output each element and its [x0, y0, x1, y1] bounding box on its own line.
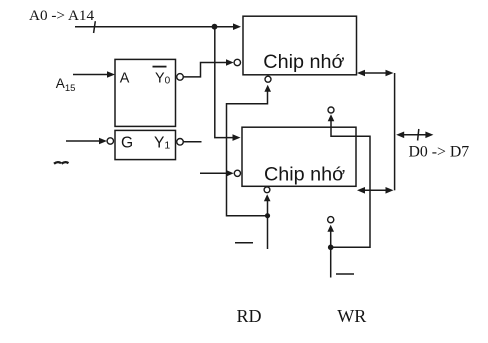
wire A15 input	[73, 74, 107, 76]
bubble chip U3 select input	[234, 170, 240, 176]
bubble decoder G input	[107, 138, 113, 144]
wire RD branch to chip U2	[227, 91, 268, 216]
wire RD trunk	[267, 200, 269, 249]
data bus chip U3 double arrow	[361, 189, 390, 191]
bubble decoder Y0 output	[177, 74, 184, 81]
wire G input	[66, 140, 99, 142]
svg-text:Chip nhớ: Chip nhớ	[264, 163, 345, 185]
arrowhead G input	[99, 138, 107, 145]
bus width tick on address bus	[94, 21, 96, 33]
arrowhead address branch into chip U3	[233, 134, 241, 141]
stray faint marks	[54, 162, 69, 164]
arrowhead A15 into decoder pin A	[107, 71, 115, 78]
junction dot WR	[328, 245, 334, 251]
wire Y1 output stub	[183, 141, 201, 143]
bubble chip U3 RD input	[264, 187, 270, 193]
arrowhead chip U3 select	[226, 170, 234, 177]
svg-text:A0 -> A14: A0 -> A14	[29, 7, 95, 24]
wire WR trunk	[330, 231, 332, 278]
bubble decoder Y1 output	[177, 139, 184, 146]
dash near RD line	[235, 242, 253, 244]
wire Y0 to chip U2 select	[183, 63, 228, 77]
wire address branch to chip U3	[215, 27, 233, 138]
dash near WR line	[336, 273, 354, 275]
svg-text:WR: WR	[337, 306, 366, 326]
svg-text:G: G	[121, 134, 133, 151]
wire address bus A0-A14	[75, 26, 236, 28]
data bus chip U2 double arrow	[361, 72, 390, 74]
svg-text:Chip nhớ: Chip nhớ	[263, 51, 344, 73]
bubble chip U3 WR input	[328, 217, 334, 223]
wire chip U3 select	[200, 172, 229, 174]
svg-text:A15: A15	[56, 76, 76, 94]
svg-text:A: A	[120, 71, 130, 87]
arrowhead RD into chip U3 bubble	[264, 194, 271, 201]
svg-text:Y0: Y0	[155, 71, 171, 87]
svg-text:RD: RD	[237, 306, 262, 326]
junction dot on address bus	[212, 24, 218, 30]
decoder U1 lower box	[115, 130, 176, 159]
arrowhead Y0 wire into chip U2 select bubble	[226, 59, 234, 66]
junction dot RD	[265, 213, 270, 218]
arrowhead address bus into chip U2	[233, 23, 241, 30]
arrowhead WR into chip U3 bubble	[327, 225, 334, 232]
arrowhead RD into chip U2 bubble	[264, 85, 271, 92]
bubble chip U2 RD input	[265, 76, 271, 82]
bus width tick on D0-D7	[418, 129, 419, 141]
wire WR branch to chip U2	[331, 121, 370, 248]
svg-text:Y1: Y1	[154, 134, 170, 151]
svg-text:D0 -> D7: D0 -> D7	[409, 144, 470, 161]
bubble chip U2 select input	[234, 59, 240, 65]
memory chip U3 box	[242, 127, 356, 186]
decoder U1 upper box	[115, 59, 176, 126]
wire D0-D7 double arrow	[400, 134, 428, 136]
memory chip U2 box	[243, 16, 357, 75]
arrowhead WR into chip U2 bubble	[328, 114, 335, 121]
bubble chip U2 WR input	[328, 107, 334, 113]
data bus vertical	[394, 73, 396, 190]
